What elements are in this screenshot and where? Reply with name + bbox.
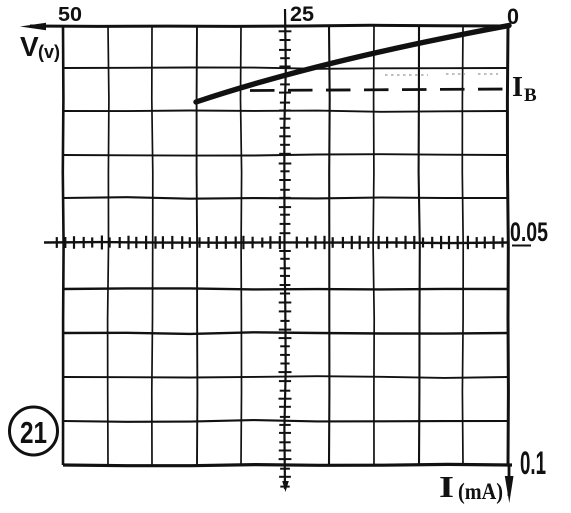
grid vertical lines [108,26,464,465]
svg-text:I: I [439,469,454,504]
svg-text:B: B [524,85,537,106]
dashed I_B level line [250,89,512,91]
data line (load line V-I characteristic) [196,26,509,103]
grid horizontal lines [63,68,508,422]
vertical center graticule line [284,9,286,489]
svg-text:0: 0 [507,4,519,29]
svg-text:0.05: 0.05 [510,217,548,247]
I axis down arrow [508,465,511,496]
V axis left arrowhead [20,23,46,30]
svg-text:50: 50 [58,4,82,26]
horizontal center graticule line [44,242,508,243]
plot frame left edge [61,26,64,465]
vertical graticule tick marks [279,31,292,486]
horizontal graticule tick marks [57,236,503,250]
svg-text:21: 21 [20,415,47,450]
svg-text:I: I [512,72,523,103]
plot frame bottom edge [63,464,512,465]
svg-text:V: V [20,31,39,62]
faint dotted artifact line [385,74,498,75]
horizontal axis right extension dash [512,245,531,247]
figure number circle 21 [10,407,58,455]
svg-text:25: 25 [290,3,314,26]
plot frame right edge [507,26,508,465]
svg-text:(mA): (mA) [458,479,503,504]
vertical graticule bottom arrow tip [282,481,289,492]
svg-text:(v): (v) [38,42,60,62]
plot frame top edge / V axis line [30,25,508,26]
svg-text:0.1: 0.1 [520,445,546,481]
